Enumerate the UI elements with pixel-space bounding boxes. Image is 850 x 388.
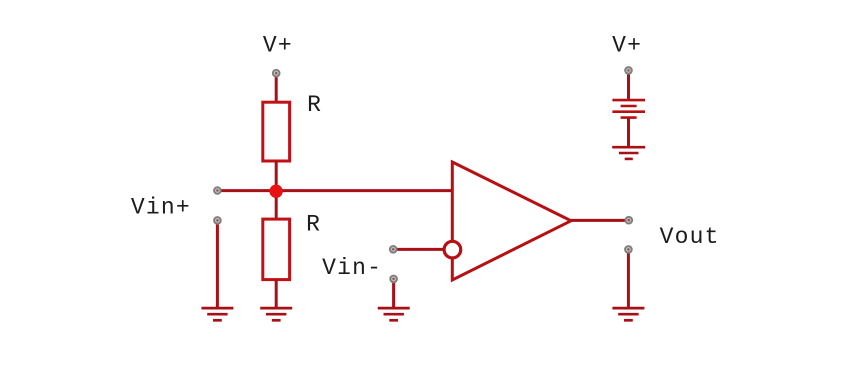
svg-text:Vout: Vout bbox=[660, 224, 720, 250]
terminal Vin- bbox=[390, 246, 397, 253]
wire node A to resistor R2 bbox=[275, 191, 278, 221]
wire V+ terminal to resistor R1 bbox=[275, 71, 278, 104]
wire V+ terminal to battery bbox=[627, 71, 630, 100]
svg-text:V+: V+ bbox=[263, 33, 293, 59]
terminal Vout stub bbox=[625, 246, 632, 253]
terminal stub top bbox=[214, 217, 221, 224]
ground G5 under battery bbox=[612, 147, 645, 159]
wire Vin- terminal to inverting bubble bbox=[393, 248, 446, 251]
svg-text:R: R bbox=[306, 212, 321, 238]
wire op-amp output to Vout terminal bbox=[571, 219, 629, 222]
terminal V+ right bbox=[625, 67, 632, 74]
svg-text:Vin+: Vin+ bbox=[131, 195, 191, 221]
ground G4 under Vout bbox=[612, 308, 644, 320]
wire R1 to node A bbox=[275, 161, 278, 191]
terminal V+ left bbox=[273, 70, 280, 77]
terminal Vout bbox=[625, 217, 632, 224]
op-amp U1 bbox=[452, 162, 571, 280]
wire Vin+ source stub to ground bbox=[216, 221, 219, 308]
svg-text:R: R bbox=[307, 92, 322, 118]
wire R2 to ground bbox=[275, 280, 278, 309]
wire battery to ground bbox=[627, 118, 630, 148]
ground G2 under R2 bbox=[260, 308, 292, 320]
terminal Vin+ bbox=[214, 187, 221, 194]
wire Vin+ terminal to op-amp non-inverting input bbox=[217, 189, 453, 192]
resistor R1 bbox=[263, 102, 290, 161]
resistor R2 bbox=[263, 219, 290, 280]
ground G1 under Vin+ stub bbox=[201, 308, 233, 320]
svg-text:V+: V+ bbox=[612, 33, 642, 59]
svg-text:Vin-: Vin- bbox=[322, 255, 382, 281]
wire Vout node to ground bbox=[627, 250, 630, 309]
inverting input bubble bbox=[444, 241, 461, 258]
wire Vin- stub to ground bbox=[392, 279, 395, 308]
battery B1 (V+ supply) bbox=[612, 100, 645, 118]
terminal Vin- stub bbox=[390, 276, 397, 283]
ground G3 under Vin- bbox=[378, 308, 410, 320]
node A junction dot bbox=[269, 185, 282, 198]
